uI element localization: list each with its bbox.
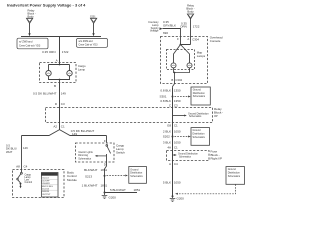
svg-text:149: 149	[72, 132, 77, 136]
svg-text:C1: C1	[61, 125, 65, 129]
svg-text:C3: C3	[174, 104, 178, 108]
svg-text:Crew Cab w/o YD3: Crew Cab w/o YD3	[19, 44, 41, 47]
svg-text:5 BLK/WHT: 5 BLK/WHT	[110, 188, 126, 192]
svg-text:0.8 BLK: 0.8 BLK	[160, 89, 171, 93]
switch internals	[106, 145, 108, 147]
svg-text:1722: 1722	[193, 24, 200, 28]
body control module (dashed box)	[13, 170, 65, 198]
svg-text:1050: 1050	[174, 141, 181, 145]
svg-text:BLK/WHT: BLK/WHT	[84, 168, 98, 172]
relay block I/P (dashed band)	[46, 108, 213, 123]
svg-text:OUTPUT: OUTPUT	[42, 194, 51, 196]
svg-text:C304: C304	[192, 37, 199, 41]
svg-text:ORN: ORN	[180, 25, 187, 29]
svg-text:G200: G200	[177, 197, 185, 201]
svg-text:Control: Control	[25, 181, 33, 184]
svg-text:1 BLK/WHT: 1 BLK/WHT	[82, 183, 98, 187]
svg-text:C1: C1	[174, 146, 178, 150]
svg-text:A: A	[56, 58, 58, 62]
console internal wiring	[174, 37, 191, 63]
power feed triangle: Relay Block - Body (top left)	[27, 9, 36, 24]
svg-text:w/ ZW9 and: w/ ZW9 and	[19, 40, 33, 43]
svg-text:MUX F BLU: MUX F BLU	[42, 186, 54, 188]
svg-text:On/OFF: On/OFF	[42, 180, 50, 182]
svg-text:Schematics: Schematics	[228, 175, 241, 178]
svg-text:Inadvertent Power Supply Volta: Inadvertent Power Supply Voltage - 3 of …	[7, 3, 86, 8]
svg-text:1851: 1851	[101, 168, 108, 172]
power feed triangle: Relay Block - Body (top right)	[186, 4, 194, 20]
svg-text:Schematics: Schematics	[130, 175, 143, 178]
svg-text:1722: 1722	[62, 50, 69, 54]
svg-text:S213: S213	[85, 175, 92, 179]
overhead console (dashed box)	[161, 37, 208, 84]
svg-text:GRY/BLK: GRY/BLK	[163, 23, 176, 27]
svg-text:4A: 4A	[167, 146, 171, 150]
wire: 0.35 GRY/BLK 690	[163, 29, 181, 37]
map lamp bulb 2	[187, 63, 192, 68]
svg-text:1350: 1350	[174, 99, 181, 103]
wire through relay block I/P (right)	[172, 110, 174, 197]
map lamp bottom join wires	[173, 68, 190, 88]
fuse block - right I/P (dashed box)	[167, 151, 210, 161]
svg-text:Schematics: Schematics	[193, 136, 206, 139]
ground distribution schematics box (S213)	[129, 167, 147, 184]
wire: BLK/WHT 1851	[105, 162, 107, 193]
ground distribution schematics box (S301)	[191, 87, 210, 105]
svg-text:DIM FB: DIM FB	[42, 191, 50, 193]
svg-text:3 BLK: 3 BLK	[163, 141, 171, 145]
wire from middle triangle to bus	[93, 23, 95, 33]
ground distribution arrow inside fuse block	[173, 154, 176, 156]
svg-text:Module: Module	[67, 178, 77, 182]
svg-text:Schematics: Schematics	[193, 95, 206, 98]
svg-text:I/P: I/P	[214, 114, 218, 118]
svg-text:G8: G8	[167, 123, 171, 127]
svg-text:A8: A8	[16, 165, 20, 169]
ground distribution schematics box (bottom right)	[226, 167, 245, 185]
svg-text:5 BLK: 5 BLK	[163, 181, 171, 185]
svg-text:A2: A2	[53, 125, 57, 129]
ground G200 (left)	[102, 193, 108, 199]
svg-text:0.35 ORN: 0.35 ORN	[42, 50, 55, 54]
svg-text:C3: C3	[61, 102, 65, 106]
ground distribution schematics box (S202)	[191, 128, 210, 146]
svg-text:G200: G200	[109, 196, 117, 200]
BCM logic table	[41, 173, 58, 198]
cargo lamp internal wiring	[49, 63, 70, 71]
wire: 0.35 ORN 1722 (bus to cargo lamp)	[59, 36, 61, 62]
ground distribution arrow inside relay block I/P	[173, 115, 186, 117]
svg-text:Body: Body	[187, 10, 194, 14]
svg-text:Schematics: Schematics	[78, 157, 92, 160]
svg-text:1050: 1050	[174, 181, 181, 185]
junction at G200 (left)	[104, 192, 106, 194]
cargo lamp switch (dashed box)	[76, 143, 115, 162]
svg-text:Right I/P: Right I/P	[211, 156, 223, 160]
svg-text:DOME C: DOME C	[45, 174, 54, 176]
svg-text:C4: C4	[174, 162, 178, 166]
svg-text:1851: 1851	[134, 188, 141, 192]
svg-text:Lamps: Lamps	[197, 54, 206, 58]
svg-text:149: 149	[23, 146, 28, 150]
wire: 0.35 ORN 1722 (to overhead console)	[190, 19, 192, 37]
svg-text:2 BLK: 2 BLK	[163, 130, 171, 134]
svg-text:A: A	[169, 162, 171, 166]
svg-text:1050: 1050	[174, 130, 181, 134]
wire from left triangle to bus	[29, 23, 31, 33]
svg-text:1851: 1851	[101, 183, 108, 187]
ground G200 (right)	[172, 195, 174, 197]
wire: 0.8 BLK 1350	[172, 88, 174, 110]
svg-text:149: 149	[61, 91, 66, 95]
option box: w/o ZW9 and Crew Cab w/ YD3	[77, 39, 108, 48]
svg-text:B: B	[171, 78, 173, 82]
cargo lamp bulb 2	[67, 71, 72, 76]
svg-text:B: B	[54, 84, 56, 88]
cargo lamp control switch inside BCM	[21, 170, 23, 173]
svg-text:Voltage: Voltage	[150, 29, 159, 33]
svg-text:Schematics: Schematics	[179, 155, 192, 158]
svg-text:0.5 DK BLU/WHT: 0.5 DK BLU/WHT	[33, 91, 57, 95]
map lamp bulb 1	[171, 63, 176, 68]
svg-text:1350: 1350	[174, 89, 181, 93]
svg-text:S202: S202	[163, 135, 170, 139]
option box: w/ ZW9 and Crew Cab w/o YD3	[17, 38, 48, 49]
power feed triangle: S201 (top middle)	[90, 16, 97, 24]
svg-text:Schematics: Schematics	[189, 115, 202, 118]
svg-text:A: A	[187, 37, 189, 41]
dashed link from box to G200	[178, 184, 236, 194]
svg-text:690: 690	[163, 31, 168, 35]
svg-text:w/o ZW9 and: w/o ZW9 and	[79, 40, 94, 43]
cargo lamp assembly (dashed box)	[40, 63, 77, 83]
wire fork below A2/C1	[22, 130, 60, 170]
map lamps (dashed box)	[167, 50, 195, 70]
svg-text:C1: C1	[174, 123, 178, 127]
wire: 5 BLK/WHT 1851	[105, 192, 138, 194]
svg-text:F: F	[104, 139, 106, 143]
svg-text:Crew Cab w/ YD3: Crew Cab w/ YD3	[79, 44, 99, 47]
svg-text:Switch: Switch	[116, 150, 125, 154]
svg-text:Lamp: Lamp	[78, 67, 85, 71]
bus wire	[21, 36, 101, 38]
svg-text:F: F	[177, 37, 179, 41]
wire: 0.5 DK BLU/WHT 149 (cargo lamp to relay block)	[59, 83, 61, 130]
cargo lamp bottom join wires	[49, 76, 70, 83]
svg-text:Console: Console	[210, 39, 221, 43]
svg-text:0.8 BLK: 0.8 BLK	[160, 99, 171, 103]
svg-text:WHT: WHT	[6, 150, 13, 154]
cargo lamp bulb 1	[46, 71, 51, 76]
svg-text:C4: C4	[24, 165, 28, 169]
svg-text:C304: C304	[175, 78, 182, 82]
svg-text:Ground Distribution: Ground Distribution	[178, 153, 199, 156]
